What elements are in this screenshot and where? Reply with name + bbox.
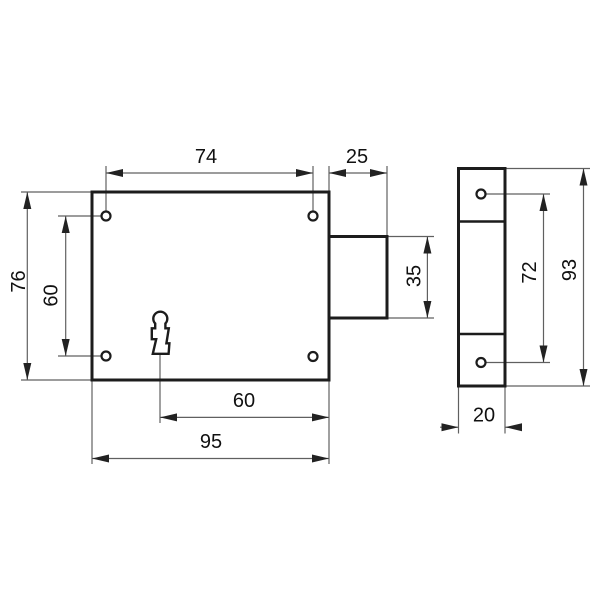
svg-text:95: 95 (200, 431, 222, 453)
svg-text:76: 76 (8, 270, 30, 292)
svg-text:35: 35 (404, 265, 426, 287)
svg-text:60: 60 (233, 390, 255, 412)
svg-text:72: 72 (519, 261, 541, 283)
svg-text:20: 20 (473, 405, 495, 427)
svg-text:93: 93 (559, 259, 581, 281)
svg-text:25: 25 (346, 146, 368, 168)
svg-text:74: 74 (195, 146, 217, 168)
svg-text:60: 60 (41, 284, 63, 306)
